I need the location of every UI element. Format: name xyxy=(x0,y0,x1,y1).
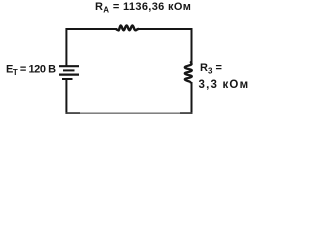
svg-text:ET = 120 В: ET = 120 В xyxy=(6,63,56,77)
svg-text:R3 =: R3 = xyxy=(200,62,222,76)
svg-text:3,3 кОм: 3,3 кОм xyxy=(199,79,250,91)
svg-text:RA = 1136,36 кОм: RA = 1136,36 кОм xyxy=(95,1,191,15)
